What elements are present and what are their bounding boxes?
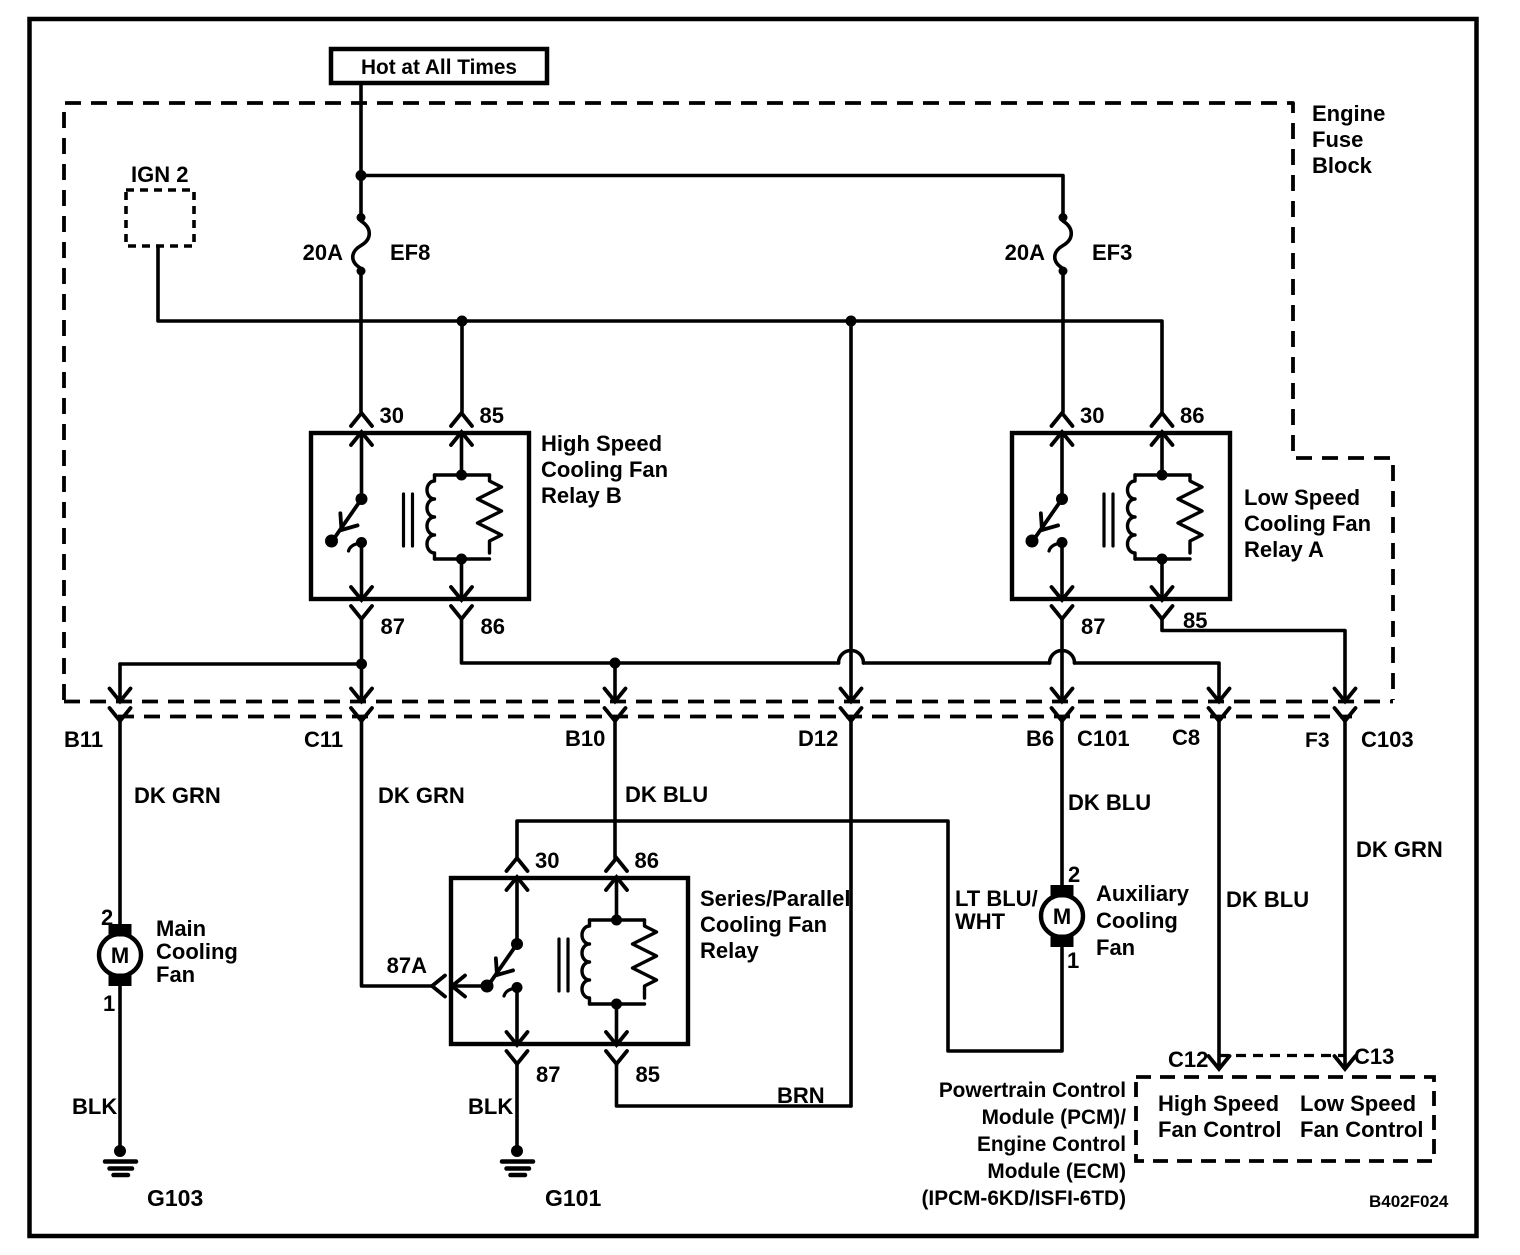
svg-text:86: 86 bbox=[635, 848, 659, 873]
svg-text:20A: 20A bbox=[303, 240, 343, 265]
motor: Auxiliary Cooling Fan bbox=[1041, 862, 1190, 973]
svg-text:Engine Control: Engine Control bbox=[977, 1133, 1126, 1156]
svg-text:Cooling: Cooling bbox=[156, 939, 238, 964]
svg-text:EF3: EF3 bbox=[1092, 240, 1132, 265]
svg-text:85: 85 bbox=[636, 1062, 660, 1087]
svg-text:C101: C101 bbox=[1077, 726, 1130, 751]
svg-text:M: M bbox=[1053, 904, 1071, 929]
svg-text:Relay B: Relay B bbox=[541, 483, 622, 508]
node: hot feed junction bbox=[356, 170, 367, 181]
svg-text:30: 30 bbox=[380, 403, 404, 428]
module: PCM / ECM bbox=[922, 1077, 1435, 1210]
wire: hot feed over to fuse EF3 bbox=[361, 176, 1063, 216]
wire: relay B 86 rail to C8 (with hops) bbox=[462, 619, 1220, 700]
relay: High Speed Cooling Fan Relay B bbox=[311, 403, 668, 639]
wire: B10 drop from 86 rail bbox=[613, 663, 617, 700]
node: rail junction to D12 bbox=[846, 316, 857, 327]
connector pin C8 bbox=[1172, 689, 1230, 751]
svg-text:DK BLU: DK BLU bbox=[625, 782, 708, 807]
svg-text:G103: G103 bbox=[147, 1185, 203, 1211]
svg-text:Fan: Fan bbox=[1096, 935, 1135, 960]
svg-text:G101: G101 bbox=[545, 1185, 601, 1211]
svg-text:Series/Parallel: Series/Parallel bbox=[700, 886, 850, 911]
node: rail junction to relay B coil 85 bbox=[457, 316, 468, 327]
wire: B11 DK GRN to main fan pin 2 bbox=[120, 721, 221, 924]
svg-text:86: 86 bbox=[1180, 403, 1204, 428]
svg-text:Relay: Relay bbox=[700, 938, 759, 963]
wire: S/P 87 BLK to ground bbox=[468, 1064, 517, 1150]
svg-text:30: 30 bbox=[1080, 403, 1104, 428]
relay: Low Speed Cooling Fan Relay A bbox=[1012, 403, 1371, 639]
wire: B10 DK BLU down to S/P relay 86 bbox=[615, 721, 708, 858]
motor: Main Cooling Fan bbox=[99, 905, 238, 1016]
connector pin B10 bbox=[565, 689, 626, 752]
svg-text:M: M bbox=[111, 943, 129, 968]
wire: EF3 output down to relay A terminal 30 bbox=[1061, 273, 1065, 412]
svg-text:Module (ECM): Module (ECM) bbox=[987, 1160, 1126, 1183]
svg-text:86: 86 bbox=[481, 614, 505, 639]
svg-text:87: 87 bbox=[381, 614, 405, 639]
svg-text:C11: C11 bbox=[304, 727, 343, 752]
svg-text:DK GRN: DK GRN bbox=[134, 783, 221, 808]
svg-text:Cooling Fan: Cooling Fan bbox=[700, 912, 827, 937]
svg-text:IGN 2: IGN 2 bbox=[131, 162, 188, 187]
ground G101 bbox=[502, 1145, 601, 1211]
connector pin B11 bbox=[64, 689, 131, 753]
svg-text:30: 30 bbox=[535, 848, 559, 873]
wire: relay B 87 down, branch to B11 bbox=[120, 619, 362, 700]
fuse EF8 20A bbox=[303, 213, 431, 276]
svg-text:Cooling Fan: Cooling Fan bbox=[1244, 511, 1371, 536]
engine fuse block dashed border bbox=[64, 101, 1393, 702]
svg-text:87: 87 bbox=[536, 1062, 560, 1087]
connector C13 (Low Speed Fan Control) bbox=[1335, 1044, 1395, 1069]
svg-text:2: 2 bbox=[1068, 862, 1080, 887]
svg-text:Relay A: Relay A bbox=[1244, 537, 1324, 562]
svg-text:B10: B10 bbox=[565, 726, 605, 751]
svg-text:Module (PCM)/: Module (PCM)/ bbox=[982, 1106, 1127, 1129]
svg-text:DK GRN: DK GRN bbox=[378, 783, 465, 808]
svg-text:High Speed: High Speed bbox=[1158, 1091, 1279, 1116]
wire: D12 feed down from rail bbox=[849, 321, 853, 700]
connector IGN 2 bbox=[126, 162, 194, 246]
wire: C11 DK GRN to S/P relay 87A bbox=[362, 721, 465, 986]
relay: Series/Parallel Cooling Fan Relay bbox=[387, 848, 851, 1087]
wire: D12 down to BRN loop (S/P coil 85) bbox=[617, 721, 852, 1108]
svg-text:EF8: EF8 bbox=[390, 240, 430, 265]
wire: hot feed from Hot at All Times down bbox=[359, 83, 363, 175]
connector pin C11 bbox=[304, 689, 372, 753]
wire: B6 DK BLU to auxiliary fan pin 2 bbox=[1062, 721, 1151, 885]
svg-text:Cooling: Cooling bbox=[1096, 908, 1178, 933]
svg-text:Low Speed: Low Speed bbox=[1244, 485, 1360, 510]
svg-text:D12: D12 bbox=[798, 726, 838, 751]
power feed box: Hot at All Times bbox=[331, 49, 547, 83]
wire: rail to relay B coil terminal 85 bbox=[460, 321, 464, 412]
wire: IGN 2 to power rail (rail y=321) bbox=[158, 246, 1162, 412]
svg-text:Auxiliary: Auxiliary bbox=[1096, 881, 1190, 906]
node: junction 87/B11 bbox=[356, 659, 367, 670]
svg-text:B402F024: B402F024 bbox=[1369, 1192, 1449, 1211]
svg-text:LT BLU/: LT BLU/ bbox=[955, 886, 1038, 911]
svg-text:20A: 20A bbox=[1005, 240, 1045, 265]
svg-text:High Speed: High Speed bbox=[541, 431, 662, 456]
svg-text:Hot at All Times: Hot at All Times bbox=[361, 56, 517, 79]
svg-text:1: 1 bbox=[103, 991, 115, 1016]
wire: relay A 85 over to F3 bbox=[1162, 619, 1345, 700]
svg-text:C13: C13 bbox=[1354, 1044, 1394, 1069]
svg-text:DK BLU: DK BLU bbox=[1068, 790, 1151, 815]
svg-text:Fuse: Fuse bbox=[1312, 127, 1363, 152]
svg-text:85: 85 bbox=[480, 403, 504, 428]
svg-text:WHT: WHT bbox=[955, 909, 1006, 934]
connector pin D12 bbox=[798, 689, 862, 752]
svg-text:C8: C8 bbox=[1172, 725, 1200, 750]
svg-text:87: 87 bbox=[1081, 614, 1105, 639]
svg-text:Fan: Fan bbox=[156, 962, 195, 987]
node: junction 86-rail/B10 bbox=[610, 658, 621, 669]
svg-text:C103: C103 bbox=[1361, 727, 1414, 752]
wire: LT BLU/WHT S/P 30 to aux fan pin 1 bbox=[517, 821, 1062, 1051]
svg-text:Engine: Engine bbox=[1312, 101, 1385, 126]
svg-text:BLK: BLK bbox=[72, 1094, 117, 1119]
svg-text:Block: Block bbox=[1312, 153, 1373, 178]
svg-text:F3: F3 bbox=[1305, 729, 1330, 752]
svg-text:C12: C12 bbox=[1168, 1047, 1208, 1072]
wire: C8 DK BLU down to PCM C12 bbox=[1219, 721, 1309, 1068]
svg-text:Powertrain Control: Powertrain Control bbox=[939, 1079, 1126, 1102]
connector pin F3 / C103 bbox=[1305, 689, 1414, 753]
svg-text:Fan Control: Fan Control bbox=[1158, 1117, 1281, 1142]
wire: hot feed to fuse EF8 bbox=[359, 176, 363, 216]
fuse EF3 20A bbox=[1005, 213, 1133, 276]
svg-text:Low Speed: Low Speed bbox=[1300, 1091, 1416, 1116]
svg-text:DK GRN: DK GRN bbox=[1356, 837, 1443, 862]
connector C12 (High Speed Fan Control) bbox=[1168, 1047, 1346, 1072]
svg-text:B11: B11 bbox=[64, 727, 103, 752]
svg-text:1: 1 bbox=[1067, 948, 1079, 973]
ground G103 bbox=[105, 1145, 203, 1211]
svg-text:BRN: BRN bbox=[777, 1083, 825, 1108]
svg-text:(IPCM-6KD/ISFI-6TD): (IPCM-6KD/ISFI-6TD) bbox=[922, 1187, 1127, 1210]
connector row C101/C103 dashed line bbox=[118, 715, 1352, 719]
wire: C103 DK GRN down to PCM C13 bbox=[1345, 721, 1443, 1068]
wire: relay A 87 down to B6 bbox=[1060, 619, 1064, 700]
svg-text:DK BLU: DK BLU bbox=[1226, 887, 1309, 912]
svg-text:B6: B6 bbox=[1026, 726, 1054, 751]
svg-text:Cooling Fan: Cooling Fan bbox=[541, 457, 668, 482]
svg-text:Fan Control: Fan Control bbox=[1300, 1117, 1423, 1142]
wire: main fan BLK to ground bbox=[72, 986, 120, 1150]
connector pin B6 / C101 bbox=[1026, 689, 1130, 752]
wire: EF8 output down to relay B terminal 30 bbox=[359, 273, 363, 412]
svg-text:BLK: BLK bbox=[468, 1094, 513, 1119]
svg-text:87A: 87A bbox=[387, 953, 427, 978]
svg-text:Main: Main bbox=[156, 916, 206, 941]
